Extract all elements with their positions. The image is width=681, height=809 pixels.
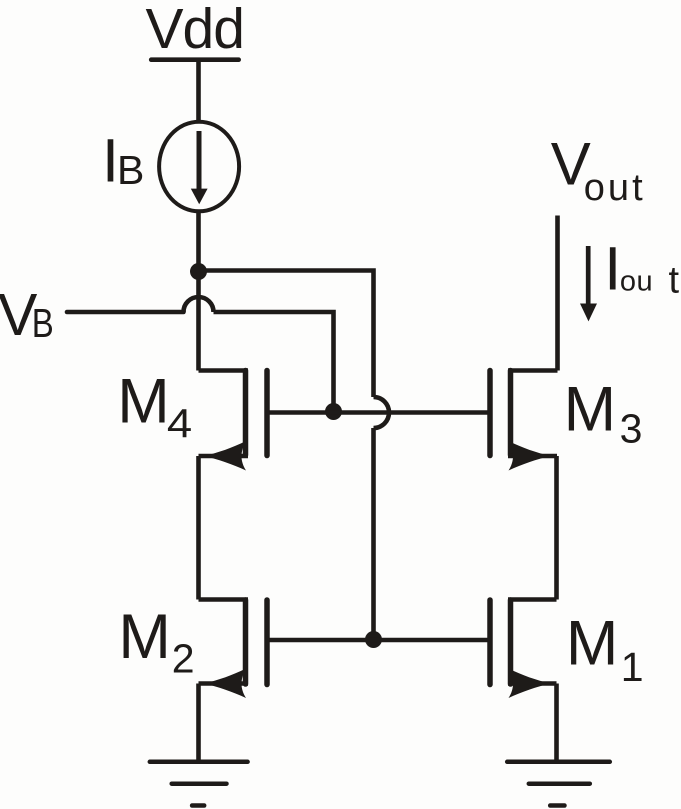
ground (right) bar 2 [529,781,590,786]
svg-text:B: B [117,147,144,193]
transistor M2 source arrow [205,669,246,699]
ground (left) bar 3 [192,803,204,808]
ground (left) bar 1 [150,760,248,765]
svg-text:4: 4 [167,401,192,447]
transistor M3 channel bar [508,371,514,456]
right rail: M1 source to ground [554,684,559,762]
ground (left) bar 2 [172,781,227,786]
transistor M3 drain lead [508,368,558,373]
svg-text:M: M [117,366,169,436]
current source IB arrow shaft [197,131,202,190]
wire node A to corner and down (gate bus upper) [199,271,374,398]
right rail: M3 source to M1 drain [554,456,559,600]
top gate line M4 to M3 [267,410,490,415]
svg-text:2: 2 [172,636,195,682]
Iout arrow shaft [586,246,591,305]
left rail: M4 source to M2 drain [196,456,201,600]
transistor M1 gate plate [487,600,493,685]
node B junction dot [365,631,382,648]
transistor M4 source arrow [205,441,246,471]
transistor M4 gate plate [264,371,270,456]
transistor M2 gate plate [264,600,270,685]
transistor M4 source lead [199,454,249,459]
bottom gate line M2 to M1 [267,638,490,643]
svg-text:1: 1 [621,644,644,690]
wire Vdd bar to current source [196,61,201,120]
transistor M1 source arrow [509,669,550,699]
hop of gate bus over top gate line [374,397,389,428]
transistor M2 drain lead [199,597,249,602]
ground (right) bar 3 [550,803,564,808]
transistor M1 drain lead [508,597,557,602]
transistor M1 source lead [508,681,557,686]
svg-text:B: B [32,300,54,346]
transistor M3 source arrow [509,441,550,471]
Vdd supply bar [151,57,239,62]
wire current source to node A [196,211,201,272]
svg-text:M: M [118,602,170,672]
ground (right) bar 1 [507,760,610,765]
wire Vout down to M3 drain [555,216,560,371]
svg-text:M: M [564,375,616,445]
transistor M4 channel bar [243,371,249,456]
transistor M3 source lead [508,454,557,459]
node C junction dot [325,403,342,420]
wire VB left segment [67,310,184,315]
transistor M2 source lead [199,681,249,686]
current source IB circle [159,122,239,212]
wire gate bus lower segment to node B [371,428,376,639]
svg-text:I: I [604,235,621,303]
transistor M3 gate plate [487,371,493,456]
Iout arrow head [580,304,597,322]
svg-text:out: out [584,167,643,209]
transistor M1 channel bar [508,600,514,684]
svg-text:3: 3 [620,406,643,452]
svg-text:ou: ou [620,265,653,297]
svg-text:Vdd: Vdd [146,0,244,61]
transistor M4 drain lead [199,368,249,373]
left rail: node A to M4 drain [196,272,201,371]
node A junction dot [190,263,207,280]
left rail: M2 source to ground [196,684,201,762]
hop of VB wire over left rail [184,297,214,312]
current source IB arrow head [191,189,208,205]
svg-text:M: M [566,609,618,679]
transistor M2 channel bar [243,600,249,684]
svg-text:t: t [669,260,680,302]
wire VB right segment with corner down to node C [214,312,334,408]
